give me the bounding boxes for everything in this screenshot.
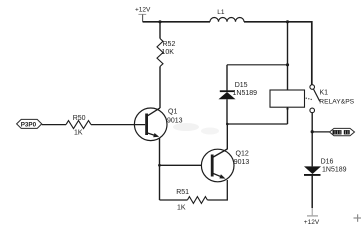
svg-text:10K: 10K	[162, 49, 175, 56]
svg-text:Q1: Q1	[168, 108, 177, 115]
power port +12V (top)	[135, 7, 151, 22]
node Q2 base junction	[158, 164, 161, 167]
resistor R52 10K	[157, 39, 175, 67]
node collector/D15/relay junction	[226, 123, 229, 126]
transistor Q2 9013	[201, 149, 249, 182]
node relay branch junction	[286, 63, 289, 66]
svg-text:1N5189: 1N5189	[322, 166, 347, 173]
svg-text:1K: 1K	[74, 130, 83, 137]
switch K1 RELAY&PS	[306, 85, 355, 113]
svg-text:RELAY&PS: RELAY&PS	[319, 98, 354, 105]
resistor R51 1K	[176, 189, 207, 212]
wire D16 to bottom power	[311, 175, 313, 215]
wire top rail left	[143, 21, 210, 23]
wire output to port	[312, 131, 329, 133]
relay coil K1 box	[270, 90, 305, 107]
svg-text:9013: 9013	[234, 159, 250, 166]
power port +12V (bottom)	[304, 216, 320, 226]
node rail/relay junction	[286, 20, 289, 23]
wire R52 top stub	[159, 22, 161, 39]
wire D15 anode	[226, 99, 228, 124]
svg-text:1K: 1K	[177, 205, 186, 212]
wire output to D16	[311, 132, 313, 167]
svg-text:P3P0: P3P0	[21, 121, 37, 128]
wire top rail right	[244, 22, 312, 85]
wire switch to output node	[311, 113, 313, 132]
svg-text:K1: K1	[320, 90, 329, 97]
node rail/R52 junction	[158, 20, 161, 23]
wire Q2 collector up	[226, 124, 228, 149]
wire Q1 emitter down	[159, 138, 161, 201]
svg-text:9013: 9013	[167, 117, 183, 124]
transistor Q1 9013	[134, 108, 182, 141]
svg-text:1N5189: 1N5189	[233, 90, 258, 97]
svg-text:L1: L1	[217, 9, 225, 16]
svg-text:R50: R50	[73, 115, 86, 122]
svg-text:R51: R51	[176, 189, 189, 196]
svg-text:+12V: +12V	[135, 7, 151, 14]
wire relay supply	[287, 22, 289, 90]
svg-text:+12V: +12V	[304, 219, 320, 226]
wire R51 to Q2 emitter	[207, 180, 227, 200]
port net label (right)	[330, 128, 355, 135]
svg-text:R52: R52	[163, 41, 176, 48]
wire D15 top to relay branch	[227, 64, 288, 66]
node output junction	[311, 130, 314, 133]
wire D15 cathode	[226, 65, 228, 91]
wire Q1 emitter to R51	[160, 199, 188, 201]
resistor R50 1K	[66, 115, 91, 137]
wire Q2 base	[160, 164, 202, 166]
inductor L1	[210, 9, 244, 22]
svg-text:Q12: Q12	[236, 151, 249, 158]
wire relay coil bottom	[286, 107, 288, 124]
svg-text:D16: D16	[321, 159, 334, 166]
wire P3P0 to R50	[42, 124, 66, 126]
port P3P0	[17, 119, 42, 128]
wire R50 to Q1 base	[91, 124, 145, 126]
wire R52 to Q1 collector	[159, 67, 161, 109]
svg-text:D15: D15	[235, 82, 248, 89]
diode D15 1N5189	[219, 82, 258, 99]
diode D16 1N5189	[304, 159, 347, 175]
wire relay loop bottom	[227, 123, 287, 125]
